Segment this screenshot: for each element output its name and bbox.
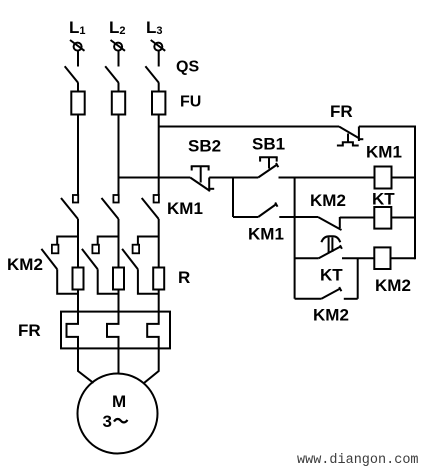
wire control feed from L3: [159, 126, 339, 128]
svg-text:3: 3: [103, 412, 112, 431]
wire KT coil to rail: [391, 217, 415, 219]
terminal L3 (circle with slash): [151, 40, 166, 51]
contact KM1 main pole 3: [142, 195, 159, 219]
resistor R pole 1: [73, 268, 84, 290]
svg-text:KM2: KM2: [7, 255, 43, 274]
wire junction vertical after SB1: [294, 178, 296, 299]
contact KM2 (NC interlock): [318, 217, 342, 230]
KM2 bypass branch pole 3: [122, 237, 159, 294]
wire FR to right rail: [359, 126, 415, 128]
svg-text:KT: KT: [320, 266, 343, 285]
svg-text:R: R: [178, 268, 190, 287]
wire motor lead 3: [144, 349, 159, 384]
svg-text:SB1: SB1: [252, 135, 285, 154]
wire KM2-NC rung left: [295, 216, 318, 218]
wire KM2 hold rung left: [295, 298, 322, 300]
coil KT: [374, 207, 391, 229]
svg-text:KM2: KM2: [375, 276, 411, 295]
KM2 bypass branch pole 2: [82, 237, 119, 294]
wire L3 resistor to FR box: [158, 290, 160, 312]
svg-text:L1: L1: [69, 18, 86, 37]
svg-text:KM2: KM2: [310, 191, 346, 210]
wire KM2-NC to KT coil: [340, 217, 375, 219]
wire L3 KM1 to resistor: [158, 219, 160, 268]
contact KM2 (NO self-hold): [321, 289, 340, 299]
switch QS pole 3: [145, 66, 159, 91]
svg-text:KM2: KM2: [313, 306, 349, 325]
terminal L1 (circle with slash): [70, 40, 85, 51]
terminal L2 (circle with slash): [111, 40, 126, 51]
switch QS pole 1: [65, 66, 79, 91]
wire L2 resistor to FR box: [118, 290, 120, 312]
coil KM1: [375, 167, 392, 189]
wire L1 resistor to FR box: [77, 290, 79, 312]
svg-text:FU: FU: [180, 94, 201, 111]
wire KT contact rung left: [295, 257, 319, 259]
wire KT contact to KM2 coil: [342, 257, 374, 259]
pushbutton SB2 (NC stop): [190, 166, 214, 191]
wire L1 KM1 to resistor: [77, 219, 79, 268]
motor M: [78, 374, 158, 454]
wire SB1 to KM1 coil: [279, 177, 375, 179]
contact KM1 main pole 1: [61, 195, 78, 219]
thermal relay FR box: [61, 312, 170, 349]
wire KM1 coil to rail: [392, 177, 416, 179]
svg-text:SB2: SB2: [188, 137, 221, 156]
contact KM1 (NO self-holding aux): [258, 204, 276, 217]
svg-text:KM1: KM1: [366, 143, 402, 162]
wire motor lead 1: [78, 349, 94, 384]
switch QS pole 2: [105, 66, 119, 91]
wire L3 fuse to KM1 contact: [158, 115, 160, 196]
svg-text:KM1: KM1: [248, 225, 284, 244]
contact KT (on-delay NO): [319, 236, 342, 258]
svg-text:FR: FR: [330, 102, 353, 121]
wire KM1 aux rung right: [279, 216, 294, 218]
svg-text:L2: L2: [109, 18, 126, 37]
fuse FU pole 2: [112, 92, 125, 115]
resistor R pole 2: [113, 268, 124, 290]
wire L1 drop to QS: [77, 51, 79, 67]
fuse FU pole 1: [71, 92, 84, 115]
wire L2 fuse to KM1 contact: [118, 115, 120, 196]
wire motor lead 2: [118, 349, 120, 375]
wire SB2 to SB1: [209, 177, 258, 179]
resistor R pole 3: [153, 268, 164, 290]
contact KM1 main pole 2: [102, 195, 119, 219]
wire branch down (junction between SB2 and SB1): [232, 178, 234, 218]
wire junction vertical to KM2 coil rung: [357, 258, 359, 299]
wire KM1 aux rung left: [233, 216, 258, 218]
svg-text:KM1: KM1: [167, 199, 203, 218]
svg-text:M: M: [112, 392, 126, 411]
wire KM2 coil to rail: [391, 257, 416, 259]
svg-text:L3: L3: [146, 18, 163, 37]
svg-text:FR: FR: [18, 321, 41, 340]
FR heater element pole 3: [147, 312, 159, 349]
svg-text:QS: QS: [176, 59, 199, 76]
KM2 bypass branch pole 1: [41, 237, 78, 294]
pushbutton SB1 (NO start): [258, 157, 278, 177]
coil KM2: [374, 247, 390, 269]
svg-text:www.diangon.com: www.diangon.com: [297, 453, 419, 468]
contact FR (NC thermal relay contact): [337, 127, 363, 146]
svg-text:KT: KT: [372, 190, 395, 209]
fuse FU pole 3: [152, 92, 165, 115]
wire control rung from L2: [119, 177, 191, 179]
FR heater element pole 1: [67, 312, 79, 349]
wire L2 KM1 to resistor: [118, 219, 120, 268]
wire right rail: [414, 126, 416, 260]
wire L2 drop to QS: [118, 51, 120, 67]
FR heater element pole 2: [107, 312, 119, 349]
wire L1 fuse to KM1 contact: [77, 115, 79, 196]
wire L3 drop to QS: [158, 51, 160, 67]
wire KM2 hold rung right: [344, 298, 358, 300]
